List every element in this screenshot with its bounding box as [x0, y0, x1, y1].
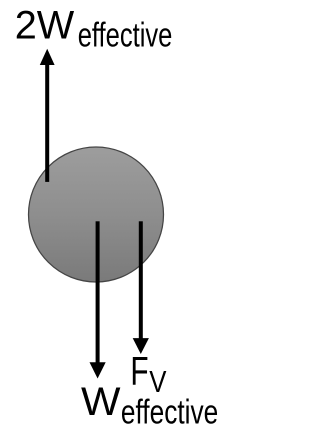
svg-text:F: F: [130, 349, 148, 393]
label 2W_effective: [15, 3, 173, 54]
svg-text:effective: effective: [78, 17, 173, 55]
label F_V: [130, 349, 167, 399]
ball (sphere): [29, 147, 164, 282]
svg-text:W: W: [81, 380, 121, 424]
svg-text:2W: 2W: [15, 3, 75, 47]
force arrow 2W_effective (upward buoyant force): [40, 49, 55, 182]
svg-text:effective: effective: [121, 394, 218, 431]
force arrow F_V (downward viscous force): [133, 221, 149, 354]
label W_effective: [81, 380, 218, 431]
force arrow W_effective (downward weight): [90, 221, 106, 378]
